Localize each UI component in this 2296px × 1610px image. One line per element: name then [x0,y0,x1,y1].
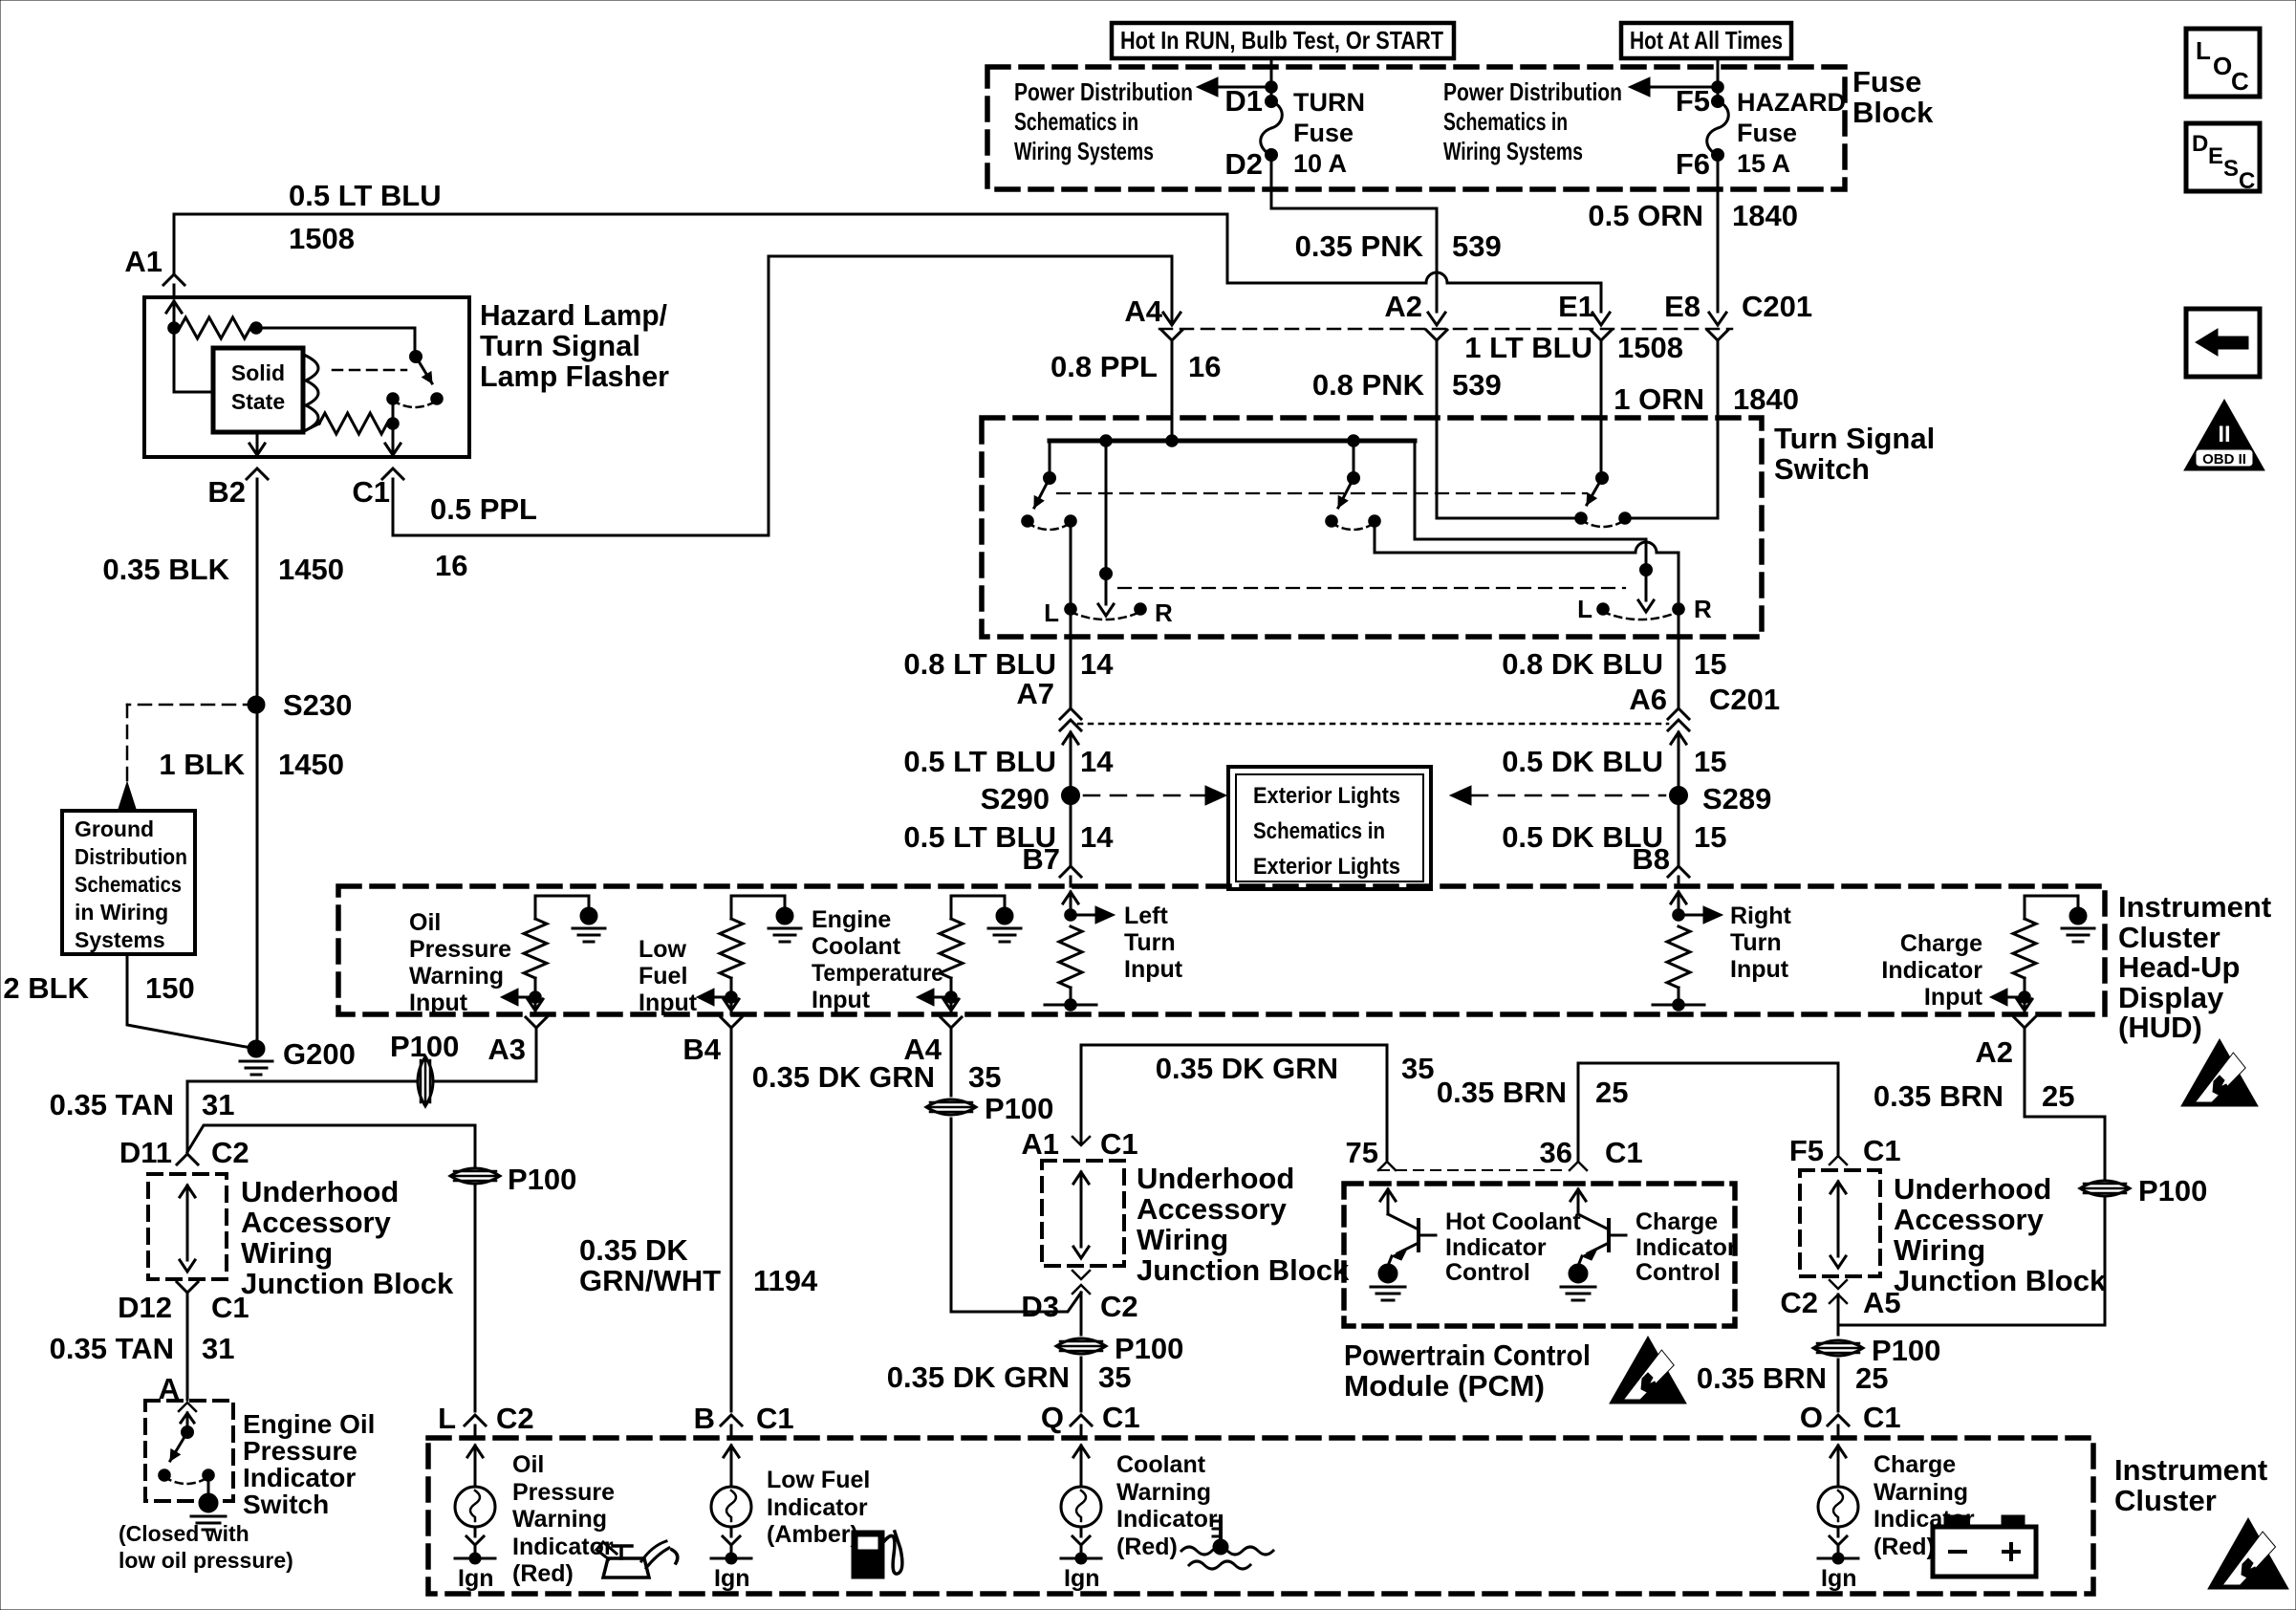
label: 1 ORN 1840 [1614,382,1799,416]
connector A4 (C201) [1124,256,1182,352]
HUD title [2118,890,2271,1044]
svg-text:P100: P100 [2138,1174,2207,1207]
junction block 1 title [241,1175,454,1300]
svg-text:Hazard Lamp/: Hazard Lamp/ [480,298,667,332]
label: 0.5 LT BLU 1508 [289,179,442,255]
HUD left turn input channel [1045,892,1115,1011]
wire: P100 down to Q [1080,1358,1083,1411]
label: 0.5 DK BLU 15 (above S289) [1502,745,1726,778]
node R (left section) [1135,598,1173,627]
wire: PNK A2 into P5 left contact [1437,352,1573,518]
wire: solid state to B2 with down arrow [249,432,265,455]
engine oil pressure switch title [243,1409,375,1519]
dashed reference S289 to exterior lights note [1450,786,1665,805]
svg-text:Junction Block: Junction Block [1137,1253,1350,1287]
label: 0.8 PNK 539 [1312,368,1502,402]
svg-text:Display: Display [2118,981,2224,1014]
label: 1 BLK 1450 [159,748,344,781]
svg-text:C1: C1 [1605,1136,1643,1169]
HUD right turn input channel [1653,892,1722,1011]
wire: L terminal down to A7 [1070,609,1072,707]
svg-text:B2: B2 [207,475,246,509]
svg-text:Warning: Warning [1874,1479,1968,1506]
label: 0.35 BRN 25 (A2) [1874,1079,2075,1113]
svg-text:Power Distribution: Power Distribution [1443,77,1622,106]
turn signal switch internal bus [1050,435,1415,447]
connector A7 (C201) [1016,677,1081,795]
svg-text:Wiring: Wiring [1137,1223,1228,1256]
connector A6 (C201) [1629,683,1780,795]
svg-text:B8: B8 [1632,842,1670,876]
connector A2 (C201) [1384,290,1447,352]
arrow to power distribution schematics (left) [1197,77,1277,97]
PCM connector dashed line [1379,1169,1568,1171]
svg-text:Charge: Charge [1635,1208,1718,1235]
svg-text:D12: D12 [118,1291,172,1324]
svg-text:15: 15 [1694,647,1726,681]
connector B4 (below HUD) [682,1017,742,1411]
svg-text:Accessory: Accessory [241,1206,392,1239]
svg-text:Engine Oil: Engine Oil [243,1409,375,1439]
svg-text:25: 25 [1855,1361,1888,1395]
PCM terminal 75 [1346,1136,1396,1170]
wire: circuit 16 PPL from C1 to A4 [393,256,1172,535]
PCM terminal 36 / C1 [1540,1136,1643,1170]
svg-text:0.5 LT BLU: 0.5 LT BLU [903,745,1056,778]
svg-text:F5: F5 [1676,84,1710,118]
svg-text:Wiring: Wiring [1894,1233,1985,1267]
svg-text:36: 36 [1540,1136,1572,1169]
wire: P3 contact across to R terminal (hops over P4) [1375,521,1679,602]
svg-text:0.35 BRN: 0.35 BRN [1874,1079,2004,1113]
svg-text:0.5 ORN: 0.5 ORN [1588,199,1703,232]
svg-text:Switch: Switch [243,1490,329,1519]
svg-text:A6: A6 [1629,683,1667,716]
svg-text:Temperature: Temperature [812,960,943,987]
svg-text:Accessory: Accessory [1894,1203,2045,1236]
svg-text:0.35 DK GRN: 0.35 DK GRN [887,1360,1070,1394]
svg-text:Control: Control [1635,1259,1721,1286]
label: Oil Pressure Warning Indicator (Red) [512,1451,615,1587]
svg-text:Warning: Warning [409,963,504,990]
label: 0.35 TAN 31 [50,1088,235,1121]
svg-text:(Red): (Red) [512,1560,574,1587]
svg-text:G200: G200 [283,1037,356,1071]
terminal L / C2 [438,1402,534,1435]
svg-text:C2: C2 [1100,1290,1138,1323]
wire: Hot In RUN feed down to TURN fuse [1270,58,1273,101]
svg-text:Coolant: Coolant [1116,1451,1206,1478]
svg-text:Warning: Warning [1116,1479,1211,1506]
wire: A3 left to D11 via P100 [187,1039,536,1152]
dashed reference S290 to exterior lights note [1084,786,1226,805]
wire: bus to right output pole pivot [1415,441,1646,539]
svg-text:B: B [694,1402,715,1435]
svg-text:E1: E1 [1558,290,1594,323]
svg-text:Underhood: Underhood [241,1175,399,1208]
HUD low fuel input channel [697,896,801,1014]
svg-text:Pressure: Pressure [512,1479,615,1506]
wire: D11 branch right to cluster L via P100 [187,1125,475,1411]
svg-text:Wiring Systems: Wiring Systems [1014,137,1154,165]
svg-text:Switch: Switch [1774,452,1870,486]
label: 0.35 DK GRN 35 (Q) [887,1360,1132,1394]
wire: S290 down to B7 [1070,795,1072,865]
svg-text:Systems: Systems [75,927,165,952]
arrow to power distribution schematics (right) [1629,77,1723,97]
wire: circuit 1508 LT BLU from A1 across to connector E1 (hops over PNK) [174,214,1601,312]
svg-text:31: 31 [202,1332,234,1365]
svg-text:0.35 DK: 0.35 DK [579,1233,688,1267]
svg-text:Indicator: Indicator [1445,1234,1547,1261]
ground (Q2 emitter) [1561,1264,1595,1300]
note box: Ground Distribution Schematics in Wiring Systems [62,811,195,954]
svg-text:16: 16 [435,549,467,582]
ground (Q1 emitter) [1371,1264,1405,1300]
icon: back arrow box [2186,309,2260,377]
junction block 1 feed-through arrows [180,1186,195,1272]
label: 0.35 BRN 25 (PCM 36) [1437,1076,1629,1109]
svg-text:Low: Low [639,936,687,963]
svg-text:Schematics in: Schematics in [1014,107,1138,136]
HUD oil pressure warning input channel [501,896,605,1014]
svg-text:HAZARD: HAZARD [1737,88,1846,117]
svg-text:Wiring: Wiring [241,1236,333,1270]
svg-text:P100: P100 [985,1092,1053,1125]
svg-text:0.35 TAN: 0.35 TAN [50,1332,174,1365]
svg-text:539: 539 [1452,229,1502,263]
connector A2 (below HUD) [1975,1017,2035,1117]
svg-text:L: L [1044,598,1059,627]
icon: battery [1933,1515,2036,1577]
svg-text:(Amber): (Amber) [767,1521,858,1548]
oil pressure warning indicator lamp (red) [455,1415,495,1592]
svg-text:L: L [1577,595,1592,623]
svg-text:Turn Signal: Turn Signal [480,329,640,362]
label: Coolant Warning Indicator (Red) [1116,1451,1218,1560]
svg-text:Fuse: Fuse [1852,65,1921,98]
svg-text:D1: D1 [1224,84,1263,118]
svg-text:(Red): (Red) [1874,1534,1935,1560]
label: Low Fuel Indicator (Amber) [767,1467,870,1548]
svg-text:Instrument: Instrument [2114,1453,2267,1487]
svg-text:Warning: Warning [512,1506,607,1533]
svg-text:OBD II: OBD II [2202,451,2246,468]
svg-text:0.5 DK BLU: 0.5 DK BLU [1502,745,1663,778]
svg-text:State: State [231,389,285,414]
icon: DESC box [2186,123,2260,194]
svg-text:Input: Input [1730,956,1789,983]
ESD warning triangle (HUD) [2181,1039,2258,1106]
icon: coolant thermometer [1181,1516,1273,1569]
connector P100 (below D3) [1056,1332,1183,1365]
svg-text:Ground: Ground [75,816,154,841]
svg-text:C: C [2239,168,2255,194]
svg-text:31: 31 [202,1088,234,1121]
travel arc L-R (right section) [1603,612,1679,620]
svg-text:1840: 1840 [1732,199,1798,232]
svg-text:Oil: Oil [512,1451,544,1478]
svg-text:(Closed with: (Closed with [119,1521,249,1546]
svg-text:S: S [2223,156,2239,182]
svg-text:D11: D11 [119,1136,172,1169]
svg-text:(HUD): (HUD) [2118,1011,2202,1044]
switch linkage lower (dashed) [1118,587,1625,589]
svg-text:25: 25 [2042,1079,2074,1113]
node R (right section) [1673,595,1712,623]
flasher resistor R1 [168,317,415,338]
svg-text:Ign: Ign [458,1565,494,1592]
svg-text:Underhood: Underhood [1137,1162,1294,1195]
junction block 2 feed-through arrows [1073,1172,1089,1258]
svg-text:25: 25 [1595,1076,1628,1109]
connector A1 into flasher [124,214,184,297]
svg-text:Hot Coolant: Hot Coolant [1445,1208,1581,1235]
svg-text:Powertrain Control: Powertrain Control [1344,1338,1591,1372]
svg-text:Charge: Charge [1900,930,1982,957]
svg-text:A4: A4 [1124,294,1162,328]
ESD warning triangle (PCM) [1610,1337,1686,1403]
svg-text:GRN/WHT: GRN/WHT [579,1264,721,1297]
note: (Closed with low oil pressure) [119,1521,293,1573]
wire: PCM 75 over to A1/C1 [1081,1045,1387,1160]
svg-text:Solid: Solid [231,360,285,385]
svg-text:C1: C1 [211,1291,249,1324]
svg-text:A1: A1 [124,245,162,278]
splice S289 [1670,782,1772,816]
svg-text:F5: F5 [1789,1134,1824,1167]
svg-text:75: 75 [1346,1136,1378,1169]
svg-text:2 BLK: 2 BLK [3,971,89,1005]
wire: PCM 36 over to F5 [1578,1063,1838,1160]
connector C1 [352,468,403,535]
fuse: TURN Fuse 10 A (D1-D2) [1224,84,1365,181]
svg-text:Block: Block [1852,96,1934,129]
svg-text:15: 15 [1694,820,1726,854]
svg-text:Schematics in: Schematics in [1443,107,1568,136]
svg-text:D: D [2192,131,2208,157]
svg-text:Underhood: Underhood [1894,1172,2051,1206]
note: Power Distribution Schematics in Wiring Systems (right) [1443,77,1622,165]
label: Engine Coolant Temperature Input [812,906,943,1013]
svg-text:TURN: TURN [1293,88,1365,117]
svg-text:Input: Input [812,987,871,1013]
splice S230 [248,688,352,722]
svg-text:0.8 PNK: 0.8 PNK [1312,368,1425,402]
svg-text:Hot At All Times: Hot At All Times [1630,26,1783,54]
connector P100 (A2 branch) [2080,1174,2207,1207]
svg-text:Input: Input [639,990,698,1016]
label: 0.35 DK GRN 35 (A4) [752,1060,1002,1094]
svg-text:B4: B4 [682,1033,721,1066]
flasher coil [306,356,318,430]
connector D11 / C2 [119,1136,249,1169]
svg-text:S290: S290 [981,782,1050,816]
svg-text:P100: P100 [390,1030,459,1063]
svg-text:1508: 1508 [1617,331,1683,364]
junction block 3 feed-through arrows [1830,1182,1846,1268]
svg-text:C: C [2231,67,2249,96]
svg-text:Q: Q [1041,1401,1064,1434]
svg-text:low oil pressure): low oil pressure) [119,1548,293,1573]
svg-text:1 LT BLU: 1 LT BLU [1464,331,1592,364]
svg-text:E8: E8 [1664,290,1700,323]
svg-text:35: 35 [968,1060,1001,1094]
svg-text:A2: A2 [1384,290,1422,323]
svg-text:F6: F6 [1676,147,1710,181]
instrument cluster title [2114,1453,2267,1517]
connector P100 (cluster oil pressure branch) [450,1163,576,1196]
svg-text:P100: P100 [508,1163,576,1196]
label: 0.8 PPL 16 [1051,350,1221,383]
svg-text:0.5 LT BLU: 0.5 LT BLU [289,179,442,212]
icon: OBD II triangle [2184,400,2264,470]
svg-text:A5: A5 [1863,1286,1901,1319]
svg-text:L: L [438,1402,456,1435]
svg-text:L: L [2196,36,2211,65]
svg-text:1194: 1194 [753,1264,818,1297]
svg-text:35: 35 [1401,1052,1434,1085]
label: Charge Indicator Input [1881,930,1982,1011]
svg-text:Turn Signal: Turn Signal [1774,422,1935,455]
svg-text:Wiring Systems: Wiring Systems [1443,137,1583,165]
connector D3 / C2 [1021,1271,1137,1335]
terminal Q / C1 [1041,1401,1140,1434]
wire: ORN E8 into P5 right contact [1631,352,1718,518]
powertrain control module dashed box [1344,1184,1735,1326]
wire: circuit 150 BLK (2 BLK) to G200 [127,954,256,1049]
label: 0.5 PPL 16 [430,492,537,582]
svg-text:Power Distribution: Power Distribution [1014,77,1193,106]
switch pole P2 (left turn output) [1098,441,1114,616]
svg-text:Hot In RUN, Bulb Test, Or STAR: Hot In RUN, Bulb Test, Or START [1120,26,1443,54]
svg-text:Indicator: Indicator [767,1494,868,1521]
label: Charge Indicator Control [1635,1208,1737,1286]
junction block 3 title [1894,1172,2107,1297]
junction block 2 title [1137,1162,1350,1287]
connector A1 / C1 [1021,1127,1137,1161]
label: Oil Pressure Warning Input [409,909,511,1016]
svg-text:C1: C1 [1102,1401,1140,1434]
ground G200 [240,1037,356,1075]
connector E8 (C201) [1664,290,1812,352]
svg-text:Indicator: Indicator [1635,1234,1737,1261]
connector C201 (in-line, A7/A6) dotted line [1078,723,1668,726]
svg-text:O: O [2213,52,2232,80]
connector E1 (C201) [1558,290,1612,352]
PCM title [1344,1338,1591,1403]
svg-text:Input: Input [409,990,468,1016]
label: 0.35 BRN 25 (O) [1697,1361,1889,1395]
svg-text:Charge: Charge [1874,1451,1956,1478]
svg-text:Pressure: Pressure [243,1436,357,1466]
wire: A1 inside flasher with up arrow [166,301,213,392]
svg-text:C201: C201 [1709,683,1780,716]
label: 2 BLK 150 [3,971,194,1005]
node L (left section) [1044,598,1076,627]
svg-text:539: 539 [1452,368,1502,402]
label: 0.8 DK BLU 15 [1502,647,1726,681]
svg-text:O: O [1800,1401,1823,1434]
svg-text:0.35 PNK: 0.35 PNK [1295,229,1424,263]
ground (engine oil pressure switch) [191,1493,226,1530]
engine oil pressure switch internals [159,1403,215,1493]
travel arc L-R (left section) [1071,612,1140,620]
svg-text:Input: Input [1924,984,1983,1011]
connector B7 [1022,842,1081,886]
svg-text:15: 15 [1694,745,1726,778]
svg-text:0.35 DK GRN: 0.35 DK GRN [1156,1052,1338,1085]
switch pole P3 (hazard select, right) [1326,441,1381,530]
svg-text:Junction Block: Junction Block [241,1267,454,1300]
charge warning indicator lamp (red) [1818,1415,1858,1592]
flasher resistor R2 [306,413,399,434]
svg-text:Left: Left [1124,903,1169,929]
connector C201 (in-line, top) dashed line [1159,328,1732,331]
svg-text:Lamp Flasher: Lamp Flasher [480,359,669,393]
fuse block title [1852,65,1934,129]
svg-text:0.35 BRN: 0.35 BRN [1697,1361,1827,1395]
svg-text:Engine: Engine [812,906,891,933]
instrument cluster dashed box [428,1438,2093,1594]
svg-text:S289: S289 [1702,782,1771,816]
label: 0.5 ORN 1840 [1588,199,1798,232]
svg-text:Ign: Ign [714,1565,750,1592]
label: 0.5 LT BLU 14 (above S290) [903,745,1114,778]
svg-text:S230: S230 [283,688,352,722]
svg-text:A7: A7 [1016,677,1054,710]
label: Hot Coolant Indicator Control [1445,1208,1581,1286]
terminal B / C1 [694,1402,794,1435]
switch linkage upper (dashed) [1057,492,1587,494]
svg-text:E: E [2208,143,2223,169]
svg-text:16: 16 [1188,350,1221,383]
fuse block dashed box [987,67,1845,189]
label: 0.5 LT BLU 14 (below S290) [903,820,1114,854]
power feed box: Hot In RUN, Bulb Test, Or START [1112,23,1454,58]
icon: LOC box [2186,29,2260,97]
wire: circuit 1840 ORN from F6 to connector E8 [1717,155,1720,312]
node L (right section) [1577,595,1609,623]
svg-text:C1: C1 [756,1402,794,1435]
svg-text:Oil: Oil [409,909,441,936]
svg-text:0.35 TAN: 0.35 TAN [50,1088,174,1121]
underhood accessory wiring junction block (1) dashed box [148,1174,227,1279]
svg-text:14: 14 [1080,647,1114,681]
svg-text:C2: C2 [496,1402,534,1435]
svg-text:Turn: Turn [1124,929,1176,956]
wire: switch output to C1 with down arrow [385,399,401,455]
svg-text:Module (PCM): Module (PCM) [1344,1369,1545,1403]
svg-text:0.35 DK GRN: 0.35 DK GRN [752,1060,935,1094]
svg-text:150: 150 [145,971,195,1005]
svg-text:Indicator: Indicator [243,1463,356,1492]
svg-text:0.8 PPL: 0.8 PPL [1051,350,1158,383]
svg-text:Fuse: Fuse [1293,119,1354,147]
wire: P100 down and over to D3 junction [951,1119,1081,1312]
label: Low Fuel Input [639,936,698,1016]
svg-text:1450: 1450 [278,553,344,586]
svg-text:D2: D2 [1224,147,1263,181]
wire: A4 into switch internal bus [1171,352,1174,441]
svg-text:D3: D3 [1021,1290,1059,1323]
wire: circuit 539 PNK from D2 to connector A2 [1271,155,1437,312]
svg-text:Ign: Ign [1821,1565,1857,1592]
svg-text:1 BLK: 1 BLK [159,748,245,781]
instrument cluster head-up display dashed box [338,886,2105,1014]
svg-text:Low Fuel: Low Fuel [767,1467,870,1493]
HUD charge indicator input channel [1990,896,2094,1014]
